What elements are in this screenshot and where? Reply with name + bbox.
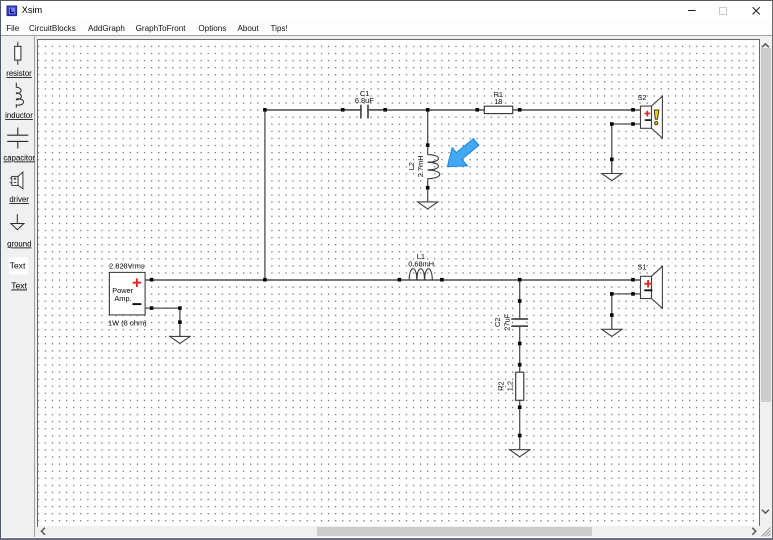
- driver S2: [637, 93, 662, 138]
- node L2 pin 2 / ground pin: [426, 186, 430, 190]
- svg-text:S2: S2: [637, 93, 646, 102]
- capacitor C1: [343, 89, 386, 119]
- wire S2 minus horizontal: [612, 123, 641, 125]
- node S2 minus pin: [631, 122, 635, 126]
- node C2 pin 1: [518, 299, 522, 303]
- node S1 plus pin: [631, 278, 635, 282]
- node ground pin under amp: [178, 320, 182, 324]
- svg-text:capacitor: capacitor: [3, 154, 35, 163]
- window maximize (disabled): [720, 8, 727, 15]
- svg-text:R2: R2: [497, 381, 506, 390]
- node R2 pin 2: [518, 405, 522, 409]
- wire R2 to ground: [519, 400, 521, 449]
- node L2 top rail junction: [426, 108, 430, 112]
- svg-text:Text: Text: [11, 281, 27, 291]
- horizontal scrollbar left arrow: [41, 528, 45, 535]
- svg-text:C2: C2: [493, 318, 502, 327]
- node ground pin under S2: [610, 158, 614, 162]
- node C1 pin 1: [341, 108, 345, 112]
- ground under S1: [602, 329, 622, 336]
- resistor R1: [484, 90, 512, 114]
- toolbar: resistor icon: [15, 42, 21, 65]
- inductor L1: [408, 252, 434, 280]
- node L1 pin 1: [398, 278, 402, 282]
- svg-text:27uF: 27uF: [502, 313, 511, 330]
- svg-text:6.8uF: 6.8uF: [355, 96, 374, 105]
- power amp U1: [108, 262, 147, 328]
- svg-text:driver: driver: [9, 195, 29, 204]
- svg-text:Text: Text: [10, 260, 26, 270]
- window close: [753, 7, 760, 14]
- svg-text:resistor: resistor: [6, 69, 32, 78]
- node C1 pin 2: [383, 108, 387, 112]
- node corner amp minus wire: [178, 306, 182, 310]
- node amp minus pin: [150, 306, 154, 310]
- svg-text:0.68mH: 0.68mH: [408, 259, 434, 268]
- driver S1: [637, 263, 662, 309]
- wire underlays (white casing to mask grid dots): [145, 110, 640, 450]
- resistor R2: [497, 372, 524, 400]
- svg-text:1.2: 1.2: [506, 381, 515, 391]
- node corner S2 minus wire: [610, 122, 614, 126]
- node ground pin under S1: [610, 313, 614, 317]
- wire mid rail: [145, 279, 640, 281]
- wire S2 minus vertical: [611, 124, 613, 174]
- node amp plus pin: [150, 278, 154, 282]
- svg-text:1W (8 ohm): 1W (8 ohm): [108, 318, 147, 327]
- node C2 pin 2: [518, 342, 522, 346]
- toolbar: Text button: [9, 257, 28, 274]
- ground under amp: [170, 336, 190, 343]
- cursor arrow: [447, 139, 479, 167]
- node R2 pin 1: [518, 363, 522, 367]
- inductor L2: [407, 155, 440, 179]
- node R1 pin 1: [476, 108, 480, 112]
- node L2 pin 1: [426, 143, 430, 147]
- svg-text:Amp.: Amp.: [114, 294, 131, 303]
- wire main vertical: [264, 110, 266, 280]
- svg-text:18: 18: [494, 97, 502, 106]
- svg-text:ground: ground: [7, 240, 31, 249]
- wire L2 branch: [427, 110, 429, 155]
- ground under R2: [510, 450, 530, 457]
- svg-text:L2: L2: [407, 162, 416, 170]
- wire C2 branch upper: [519, 280, 521, 319]
- svg-text:inductor: inductor: [5, 111, 33, 120]
- horizontal scrollbar right arrow: [752, 528, 756, 535]
- wire amp minus vertical: [179, 308, 181, 336]
- svg-text:2.7mH: 2.7mH: [416, 155, 425, 177]
- svg-text:S1: S1: [637, 263, 646, 272]
- resize grip: [762, 528, 771, 537]
- app icon: [7, 6, 17, 16]
- node ground pin under R2: [518, 434, 522, 438]
- window minimize: [688, 10, 696, 12]
- toolbar: capacitor icon: [7, 128, 28, 149]
- node corner top rail / main vertical: [263, 108, 267, 112]
- toolbar: driver icon: [10, 172, 23, 189]
- wire amp minus horizontal: [145, 307, 180, 309]
- toolbar: ground icon: [11, 214, 24, 230]
- ground under L2: [418, 202, 438, 209]
- node C2 mid rail junction: [518, 278, 522, 282]
- wire S1 minus vertical: [611, 294, 613, 329]
- vertical scrollbar down arrow: [762, 510, 769, 513]
- wire S1 minus horizontal: [612, 293, 641, 295]
- toolbar: inductor icon: [16, 83, 24, 108]
- wire L2 to ground: [427, 179, 429, 202]
- capacitor C2: [493, 313, 528, 330]
- vertical scrollbar up arrow: [762, 44, 769, 47]
- node corner S1 minus wire: [610, 292, 614, 296]
- node L1 pin 2: [440, 278, 444, 282]
- ground under S2: [602, 159, 622, 180]
- node S1 minus pin: [631, 292, 635, 296]
- wire C2 to R2: [519, 326, 521, 372]
- node R1 pin 2: [518, 108, 522, 112]
- node S2 plus pin: [631, 108, 635, 112]
- svg-text:2.828Vrms: 2.828Vrms: [109, 262, 145, 271]
- node mid rail / main vertical junction: [263, 278, 267, 282]
- wire top rail: [265, 109, 641, 111]
